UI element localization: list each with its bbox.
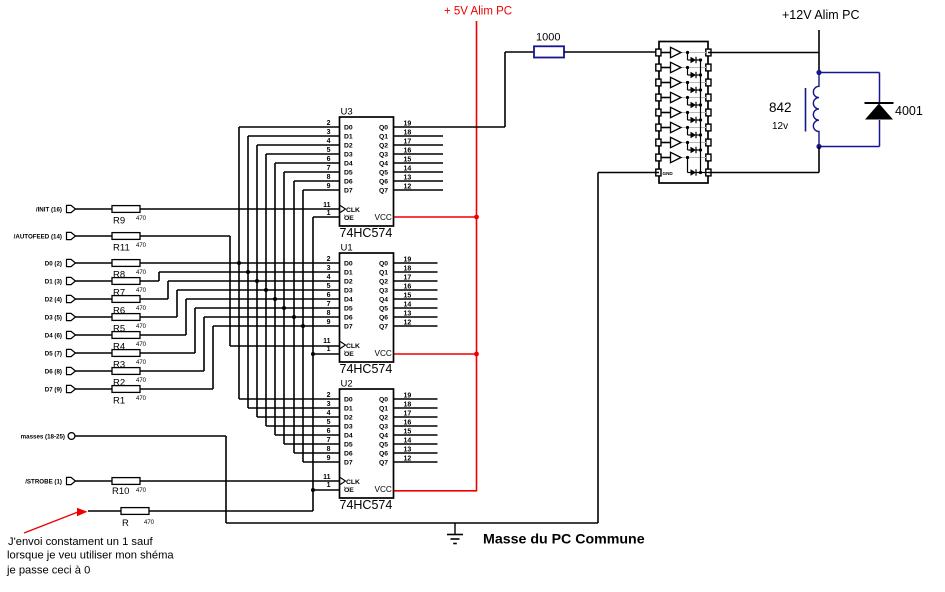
- wire net D0 from resistor to U1 D0: [140, 262, 340, 264]
- svg-text:VCC: VCC: [375, 485, 392, 494]
- wire D7 connector to resistor: [76, 388, 113, 390]
- wire net D3 to U2 D3: [266, 425, 340, 427]
- svg-text:11: 11: [323, 474, 331, 481]
- svg-text:74HC574: 74HC574: [340, 226, 393, 240]
- svg-text:CLK: CLK: [346, 207, 360, 214]
- junction node D0: [237, 261, 241, 265]
- svg-text:+ 5V Alim PC: + 5V Alim PC: [444, 6, 512, 18]
- svg-text:D1: D1: [344, 270, 353, 277]
- svg-text:8: 8: [327, 310, 331, 317]
- svg-text:R9: R9: [113, 215, 125, 226]
- svg-text:GND: GND: [663, 171, 674, 176]
- svg-text:470: 470: [136, 306, 147, 312]
- wire masses riser to ground bus: [225, 436, 227, 523]
- svg-text:5: 5: [327, 283, 331, 290]
- svg-text:Q7: Q7: [379, 460, 388, 467]
- svg-text:D2: D2: [344, 279, 353, 286]
- svg-text:Q4: Q4: [379, 433, 388, 440]
- svg-text:D1: D1: [344, 406, 353, 413]
- svg-text:D6 (8): D6 (8): [45, 368, 62, 375]
- svg-text:3: 3: [327, 129, 331, 136]
- connector /AUTOFEED (14): [14, 232, 76, 240]
- svg-text:U3: U3: [341, 107, 353, 118]
- svg-text:D5: D5: [344, 170, 353, 177]
- svg-text:470: 470: [136, 488, 147, 494]
- wire U2 VCC to +5V rail: [393, 490, 477, 492]
- power label +12V Alim PC: [782, 8, 859, 22]
- svg-text:masses (18-25): masses (18-25): [21, 434, 65, 441]
- wire net D5 vertical riser: [283, 172, 285, 444]
- svg-text:D2 (4): D2 (4): [45, 296, 62, 303]
- svg-text:1000: 1000: [536, 32, 560, 44]
- connector D1 (3): [45, 277, 76, 285]
- svg-text:9: 9: [327, 319, 331, 326]
- svg-text:4: 4: [327, 410, 331, 417]
- svg-text:7: 7: [327, 165, 331, 172]
- wire OE riser to U2 OE: [313, 489, 340, 491]
- wire resistor 1000 to driver input: [564, 51, 659, 53]
- wire net D2 from resistor to U1 D2: [140, 281, 340, 299]
- op-amp U3 (74HC574 latch): [323, 107, 411, 241]
- junction node D5: [282, 306, 286, 310]
- svg-text:8: 8: [327, 446, 331, 453]
- wire net D7 vertical riser: [302, 190, 304, 462]
- wire net D2 vertical riser: [256, 145, 258, 417]
- svg-text:D4: D4: [344, 433, 353, 440]
- svg-text:D7: D7: [344, 188, 353, 195]
- svg-text:Q6: Q6: [379, 315, 388, 322]
- wire net D0 to U2 D0: [239, 398, 340, 400]
- svg-text:5: 5: [327, 147, 331, 154]
- svg-text:Q3: Q3: [379, 288, 388, 295]
- wire U3 Q0 output: [394, 126, 506, 128]
- svg-text:D7: D7: [344, 324, 353, 331]
- wire +12V feed: [818, 30, 820, 73]
- svg-text:CLK: CLK: [346, 479, 360, 486]
- svg-text:Q2: Q2: [379, 279, 388, 286]
- svg-text:470: 470: [136, 342, 147, 348]
- svg-text:D7 (9): D7 (9): [45, 386, 62, 393]
- junction node D7: [301, 324, 305, 328]
- svg-text:Q1: Q1: [379, 406, 388, 413]
- svg-text:Q6: Q6: [379, 451, 388, 458]
- wire /STROBE connector to resistor: [76, 480, 113, 482]
- label Masse du PC Commune: [483, 532, 645, 548]
- wire net D2 to U3 D2: [257, 144, 340, 146]
- wire relay loop: [819, 73, 880, 147]
- connector D0 (2): [45, 259, 76, 267]
- svg-text:5: 5: [327, 419, 331, 426]
- resistor R8: [112, 260, 147, 281]
- svg-text:CLK: CLK: [346, 343, 360, 350]
- wire /INIT to U3 CLK: [140, 208, 340, 210]
- resistor R7: [112, 278, 147, 299]
- svg-text:Q2: Q2: [379, 143, 388, 150]
- wire net D7 from resistor to U1 D7: [140, 326, 340, 389]
- svg-text:Q6: Q6: [379, 179, 388, 186]
- svg-text:D6: D6: [344, 315, 353, 322]
- svg-text:VCC: VCC: [375, 349, 392, 358]
- svg-text:2: 2: [327, 120, 331, 127]
- junction OE at U1: [311, 352, 315, 356]
- svg-text:Masse du PC Commune: Masse du PC Commune: [483, 532, 645, 548]
- wire net D7 to U2 D7: [303, 461, 340, 463]
- wire D5 connector to resistor: [76, 352, 113, 354]
- wire net D1 to U2 D1: [248, 407, 340, 409]
- svg-text:Q2: Q2: [379, 415, 388, 422]
- svg-text:470: 470: [136, 396, 147, 402]
- wire net D5 to U2 D5: [284, 443, 340, 445]
- diode D1 1N4001: [865, 103, 894, 120]
- label relay 842: [769, 100, 792, 115]
- wire /STROBE to U2 CLK: [140, 480, 340, 482]
- resistor R: [121, 508, 155, 529]
- svg-text:D4: D4: [344, 297, 353, 304]
- svg-text:D0: D0: [344, 125, 353, 132]
- connector D6 (8): [45, 367, 76, 375]
- wire net D4 vertical riser: [274, 163, 276, 435]
- svg-text:1: 1: [327, 346, 331, 353]
- wire U1 VCC to +5V rail: [393, 353, 477, 355]
- svg-text:VCC: VCC: [375, 213, 392, 222]
- wire OE riser to U1 OE: [313, 353, 340, 355]
- svg-text:2: 2: [327, 392, 331, 399]
- svg-text:470: 470: [136, 288, 147, 294]
- svg-text:D2: D2: [344, 415, 353, 422]
- svg-text:+12V Alim PC: +12V Alim PC: [782, 8, 859, 22]
- svg-text:2: 2: [327, 256, 331, 263]
- wire driver output to relay: [708, 52, 819, 54]
- annotation red arrow: [24, 508, 88, 533]
- label diode 4001: [895, 104, 923, 118]
- wire D2 connector to resistor: [76, 298, 113, 300]
- svg-text:7: 7: [327, 301, 331, 308]
- svg-text:D6: D6: [344, 179, 353, 186]
- node relay top: [816, 70, 821, 75]
- svg-text:3: 3: [327, 265, 331, 272]
- svg-text:Q7: Q7: [379, 324, 388, 331]
- svg-text:Q5: Q5: [379, 170, 388, 177]
- svg-text:11: 11: [323, 338, 331, 345]
- connector D7 (9): [45, 385, 76, 393]
- svg-text:D3: D3: [344, 152, 353, 159]
- svg-text:Q5: Q5: [379, 442, 388, 449]
- wire /INIT connector to resistor: [76, 208, 113, 210]
- junction OE at U2: [311, 488, 315, 492]
- svg-text:/AUTOFEED (14): /AUTOFEED (14): [14, 233, 62, 240]
- svg-text:D3: D3: [344, 424, 353, 431]
- svg-text:470: 470: [136, 270, 147, 276]
- svg-text:4: 4: [327, 274, 331, 281]
- svg-text:6: 6: [327, 156, 331, 163]
- wire red arrow to resistor R: [88, 510, 121, 512]
- svg-text:470: 470: [136, 360, 147, 366]
- junction node D1: [246, 270, 250, 274]
- op-amp U2 (74HC574 latch): [323, 379, 411, 513]
- wire /AUTOFEED to U1 CLK: [140, 236, 340, 346]
- wire net D1 vertical riser: [247, 136, 249, 408]
- connector D4 (6): [45, 331, 76, 339]
- junction node D2: [255, 279, 259, 283]
- resistor 1000: [534, 32, 564, 58]
- svg-text:U2: U2: [341, 379, 353, 390]
- svg-text:D6: D6: [344, 451, 353, 458]
- wire relay return to driver: [708, 147, 819, 173]
- wire net D2 to U2 D2: [257, 416, 340, 418]
- resistor R9: [112, 206, 147, 227]
- svg-text:842: 842: [769, 100, 792, 115]
- svg-text:Q3: Q3: [379, 152, 388, 159]
- svg-text:Q0: Q0: [379, 397, 388, 404]
- svg-text:je passe ceci à 0: je passe ceci à 0: [6, 565, 90, 577]
- wire net D0 vertical riser: [238, 127, 240, 399]
- resistor R6: [112, 296, 147, 317]
- svg-text:D4: D4: [344, 161, 353, 168]
- junction +5V at U1 VCC: [474, 352, 479, 357]
- wire Q0 riser: [504, 52, 506, 127]
- svg-text:D5: D5: [344, 306, 353, 313]
- svg-text:Q1: Q1: [379, 134, 388, 141]
- resistor R3: [112, 350, 147, 371]
- svg-text:/INIT (16): /INIT (16): [36, 206, 62, 213]
- op-amp U1 (74HC574 latch): [323, 243, 411, 377]
- svg-text:470: 470: [136, 243, 147, 249]
- wire masses horizontal: [75, 435, 226, 437]
- svg-text:D5 (7): D5 (7): [45, 350, 62, 357]
- svg-text:3: 3: [327, 401, 331, 408]
- wire net D0 to U3 D0: [239, 126, 340, 128]
- svg-text:D7: D7: [344, 460, 353, 467]
- svg-text:D2: D2: [344, 143, 353, 150]
- wire D4 connector to resistor: [76, 334, 113, 336]
- wire D6 connector to resistor: [76, 370, 113, 372]
- svg-text:470: 470: [136, 216, 147, 222]
- svg-text:Q0: Q0: [379, 261, 388, 268]
- label relay 12v: [772, 121, 788, 132]
- connector D2 (4): [45, 295, 76, 303]
- svg-text:J'envoi constament un 1 sauf: J'envoi constament un 1 sauf: [8, 536, 153, 548]
- connector /STROBE (1): [25, 477, 75, 485]
- wire net D4 to U2 D4: [275, 434, 340, 436]
- wire net D4 to U3 D4: [275, 162, 340, 164]
- svg-text:12v: 12v: [772, 121, 788, 132]
- svg-text:74HC574: 74HC574: [340, 498, 393, 512]
- svg-text:lorsque je veu utiliser mon sh: lorsque je veu utiliser mon shéma: [7, 550, 174, 562]
- svg-text:D0: D0: [344, 261, 353, 268]
- svg-text:U1: U1: [341, 243, 353, 254]
- connector D5 (7): [45, 349, 76, 357]
- svg-text:OE: OE: [344, 215, 354, 222]
- wire D0 connector to resistor: [76, 262, 113, 264]
- wire net D3 to U3 D3: [266, 153, 340, 155]
- annotation french note: [6, 536, 174, 577]
- wire net D5 from resistor to U1 D5: [140, 308, 340, 353]
- svg-text:R11: R11: [113, 242, 130, 253]
- node relay bottom: [816, 144, 821, 149]
- svg-text:OE: OE: [344, 351, 354, 358]
- svg-text:OE: OE: [344, 487, 354, 494]
- wire net D6 from resistor to U1 D6: [140, 317, 340, 371]
- wire U3 VCC to +5V rail: [393, 216, 477, 218]
- wire net D6 vertical riser: [293, 181, 295, 453]
- resistor R4: [112, 332, 147, 353]
- driver IC U4 (ULN2803): [656, 42, 711, 184]
- connector masses (18-25): [21, 433, 75, 441]
- wire D3 connector to resistor: [76, 316, 113, 318]
- wire net D1 to U3 D1: [248, 135, 340, 137]
- wire net D3 vertical riser: [265, 154, 267, 426]
- junction +5V at U3 VCC: [474, 215, 479, 220]
- wire net D3 from resistor to U1 D3: [140, 290, 340, 317]
- svg-text:Q7: Q7: [379, 188, 388, 195]
- junction node D3: [264, 288, 268, 292]
- svg-text:Q5: Q5: [379, 306, 388, 313]
- resistor R10: [112, 478, 147, 497]
- resistor R1: [112, 386, 147, 407]
- svg-text:Q3: Q3: [379, 424, 388, 431]
- svg-text:D4 (6): D4 (6): [45, 332, 62, 339]
- svg-text:D0: D0: [344, 397, 353, 404]
- wire net D1 from resistor to U1 D1: [140, 272, 340, 281]
- connector D3 (5): [45, 313, 76, 321]
- junction node D6: [292, 315, 296, 319]
- svg-text:1: 1: [327, 210, 331, 217]
- wire D1 connector to resistor: [76, 280, 113, 282]
- svg-text:Q0: Q0: [379, 125, 388, 132]
- wire net D6 to U2 D6: [294, 452, 340, 454]
- wire /AUTOFEED connector to resistor: [76, 235, 113, 237]
- svg-text:Q4: Q4: [379, 297, 388, 304]
- wire OE riser vertical: [312, 217, 314, 511]
- svg-text:1: 1: [327, 482, 331, 489]
- relay coil K1 842: [806, 73, 820, 147]
- svg-text:470: 470: [136, 324, 147, 330]
- svg-text:11: 11: [323, 202, 331, 209]
- resistor R5: [112, 314, 147, 335]
- junction node D4: [273, 297, 277, 301]
- resistor R2: [112, 368, 147, 389]
- svg-text:D1: D1: [344, 134, 353, 141]
- power label +5V Alim PC: [444, 6, 512, 18]
- wire net D6 to U3 D6: [294, 180, 340, 182]
- wire +5V vertical rail: [476, 21, 478, 491]
- svg-text:470: 470: [144, 520, 155, 526]
- svg-text:6: 6: [327, 428, 331, 435]
- svg-text:4001: 4001: [895, 104, 923, 118]
- svg-text:R1: R1: [113, 395, 125, 406]
- svg-text:D1 (3): D1 (3): [45, 278, 62, 285]
- wire Q0 to resistor 1000: [505, 51, 534, 53]
- wire ground bus: [226, 522, 598, 524]
- svg-text:74HC574: 74HC574: [340, 362, 393, 376]
- svg-text:D3: D3: [344, 288, 353, 295]
- svg-text:7: 7: [327, 437, 331, 444]
- svg-text:6: 6: [327, 292, 331, 299]
- svg-text:9: 9: [327, 455, 331, 462]
- connector /INIT (16): [36, 205, 76, 213]
- svg-text:Q1: Q1: [379, 270, 388, 277]
- svg-text:Q4: Q4: [379, 161, 388, 168]
- wires U3 outputs Q1-Q7: [394, 136, 444, 190]
- wire OE riser to U3 OE: [313, 216, 340, 218]
- wire resistor R to OE riser: [149, 510, 313, 512]
- wire driver GND to ground riser: [598, 172, 659, 174]
- wire net D4 from resistor to U1 D4: [140, 299, 340, 335]
- svg-text:R10: R10: [112, 486, 129, 497]
- svg-text:D3 (5): D3 (5): [45, 314, 62, 321]
- svg-text:D0 (2): D0 (2): [45, 260, 62, 267]
- wire net D7 to U3 D7: [303, 189, 340, 191]
- svg-text:/STROBE (1): /STROBE (1): [25, 478, 62, 485]
- svg-text:9: 9: [327, 183, 331, 190]
- resistor R11: [112, 233, 147, 254]
- wire net D5 to U3 D5: [284, 171, 340, 173]
- svg-text:470: 470: [136, 378, 147, 384]
- wires U2 outputs Q0-Q7: [394, 399, 438, 462]
- ground symbol: [447, 523, 463, 544]
- svg-text:R: R: [122, 518, 129, 529]
- wire ground riser: [597, 173, 599, 524]
- svg-text:8: 8: [327, 174, 331, 181]
- svg-text:4: 4: [327, 138, 331, 145]
- wires U1 outputs Q0-Q7: [394, 263, 438, 326]
- svg-text:D5: D5: [344, 442, 353, 449]
